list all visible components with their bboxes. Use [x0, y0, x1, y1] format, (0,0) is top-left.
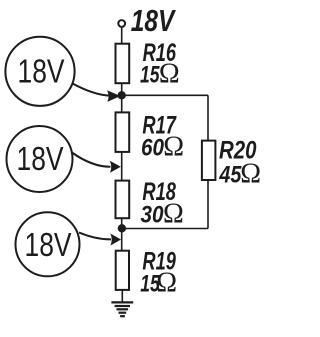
resistor R17	[116, 112, 130, 151]
svg-text:Ω: Ω	[163, 131, 184, 162]
svg-text:18V: 18V	[17, 140, 64, 177]
svg-text:18V: 18V	[18, 52, 65, 89]
svg-text:45: 45	[219, 162, 242, 189]
terminal 18V supply	[118, 20, 125, 27]
svg-text:18V: 18V	[25, 226, 72, 263]
wire terminal to R16	[121, 27, 123, 44]
wire node A to right branch	[122, 94, 208, 96]
wire right branch bottom	[207, 180, 209, 229]
wire R18 to R19	[121, 218, 123, 251]
svg-text:60: 60	[141, 134, 165, 161]
wire R19 to ground	[121, 290, 123, 303]
wire R16 to R17	[121, 83, 123, 112]
wire right branch top	[207, 95, 209, 140]
source circle V2 18V	[7, 126, 73, 192]
svg-text:Ω: Ω	[240, 159, 261, 190]
resistor R16	[116, 44, 130, 83]
resistor R20	[202, 141, 216, 180]
arrow V2 to node between R17 R18	[72, 153, 111, 167]
node A junction dot	[118, 91, 126, 99]
svg-text:30: 30	[141, 202, 165, 229]
svg-text:15: 15	[140, 62, 160, 89]
source circle V1 18V	[5, 37, 74, 106]
resistor R19	[116, 251, 129, 290]
arrow V3 to node B	[79, 233, 111, 240]
ground	[111, 302, 133, 316]
resistor R18	[116, 181, 130, 219]
wire R17 to R18	[121, 152, 123, 181]
svg-text:Ω: Ω	[159, 59, 180, 90]
wire node B to right branch	[122, 228, 208, 230]
svg-text:18V: 18V	[131, 3, 176, 38]
node B junction dot	[118, 224, 126, 232]
source circle V3 18V	[16, 212, 80, 276]
svg-text:Ω: Ω	[163, 199, 184, 230]
svg-text:Ω: Ω	[156, 268, 177, 299]
arrow V1 to node A	[73, 84, 109, 96]
